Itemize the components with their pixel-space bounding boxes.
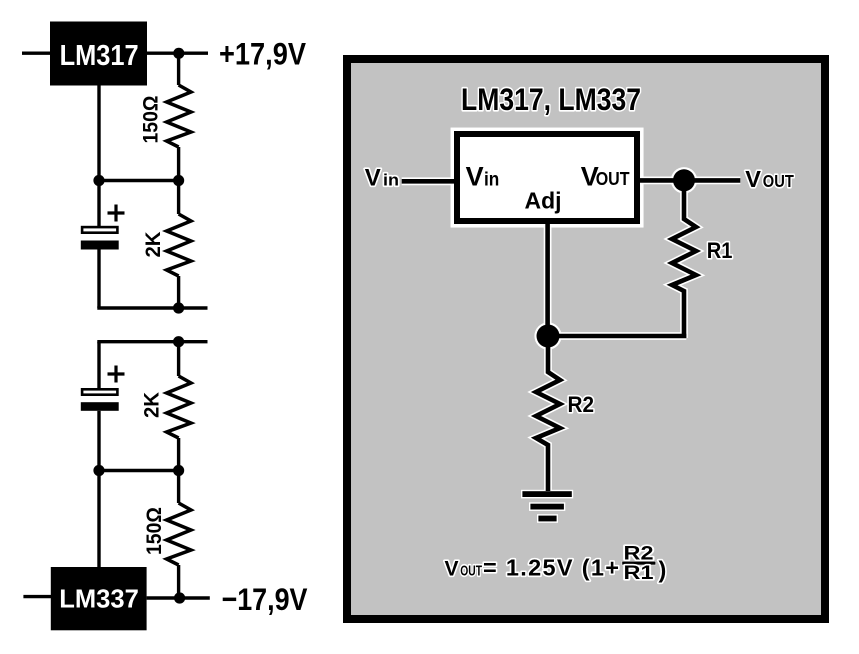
pin label VOUT xyxy=(581,161,630,191)
node resistor junction lower xyxy=(173,465,184,476)
svg-text:R2: R2 xyxy=(568,392,595,417)
panel frame (gray inset box) xyxy=(343,55,829,623)
svg-text:V: V xyxy=(745,166,761,192)
capacitor C1 (polarized) xyxy=(81,181,125,309)
node cap-adj junction lower xyxy=(93,465,104,476)
node adj junction xyxy=(537,325,560,348)
svg-text:Adj: Adj xyxy=(525,187,562,213)
ground xyxy=(522,491,571,521)
svg-text:= 1.25V (1+: = 1.25V (1+ xyxy=(483,555,619,581)
node adj-cap junction xyxy=(93,175,104,186)
resistor R2 xyxy=(536,336,560,491)
resistor R1 xyxy=(672,180,696,338)
wire regulator output xyxy=(638,178,740,183)
wire middle rail upper xyxy=(98,179,179,182)
wire LM317 output to +17,9V xyxy=(147,52,208,55)
node output positive rail xyxy=(173,48,184,59)
wire middle rail lower xyxy=(98,469,179,472)
regulator U2 LM337 xyxy=(51,567,147,630)
wire LM317 adj pin down xyxy=(97,85,100,181)
svg-text:LM317, LM337: LM317, LM337 xyxy=(461,81,641,117)
svg-text:150Ω: 150Ω xyxy=(143,507,166,555)
regulator U1 LM317 xyxy=(50,22,147,86)
node output junction xyxy=(673,169,695,191)
wire bottom rail of upper circuit xyxy=(97,306,207,309)
svg-text:LM317: LM317 xyxy=(60,40,139,72)
svg-text:2K: 2K xyxy=(141,392,164,418)
resistor 2K (upper) xyxy=(167,181,191,309)
label VOUT (output net) xyxy=(745,166,794,192)
wire LM337 output to -17,9V xyxy=(147,596,210,599)
node output negative rail xyxy=(174,592,185,603)
wire adj pin down to node xyxy=(545,222,550,336)
svg-text:−17,9V: −17,9V xyxy=(222,581,308,617)
svg-text:V: V xyxy=(365,165,381,192)
svg-text:OUT: OUT xyxy=(596,168,630,189)
wire top rail of lower circuit xyxy=(97,340,207,343)
svg-text:LM337: LM337 xyxy=(59,584,139,614)
svg-text:2K: 2K xyxy=(142,232,165,258)
wire node to R1 bottom xyxy=(548,334,686,339)
svg-text:V: V xyxy=(466,161,484,191)
svg-text:V: V xyxy=(445,558,459,581)
formula Vout = 1.25V (1 + R2/R1) xyxy=(445,543,667,585)
resistor 150Ω (lower) xyxy=(167,471,191,599)
node bottom rail xyxy=(173,302,184,313)
svg-text:R1: R1 xyxy=(707,238,733,263)
pin label Vin xyxy=(466,161,500,191)
wire LM337 adj pin up xyxy=(97,471,100,568)
svg-text:+17,9V: +17,9V xyxy=(219,36,306,72)
wire LM337 input xyxy=(23,595,52,598)
label Vin (input net) xyxy=(365,165,399,192)
wire input to regulator xyxy=(402,179,457,184)
svg-text:): ) xyxy=(659,557,667,583)
node resistor junction xyxy=(173,175,184,186)
node top rail lower xyxy=(173,336,184,347)
resistor 2K (lower) xyxy=(167,342,191,471)
svg-text:in: in xyxy=(484,169,499,190)
wire LM317 input xyxy=(22,52,52,55)
resistor 150Ω (upper) xyxy=(167,53,191,180)
svg-text:150Ω: 150Ω xyxy=(140,96,163,144)
regulator U3 body xyxy=(452,129,642,226)
svg-text:R1: R1 xyxy=(624,562,654,584)
svg-text:OUT: OUT xyxy=(763,171,794,191)
svg-text:OUT: OUT xyxy=(460,564,482,580)
capacitor C2 (polarized) xyxy=(81,342,125,471)
svg-text:in: in xyxy=(383,171,399,190)
